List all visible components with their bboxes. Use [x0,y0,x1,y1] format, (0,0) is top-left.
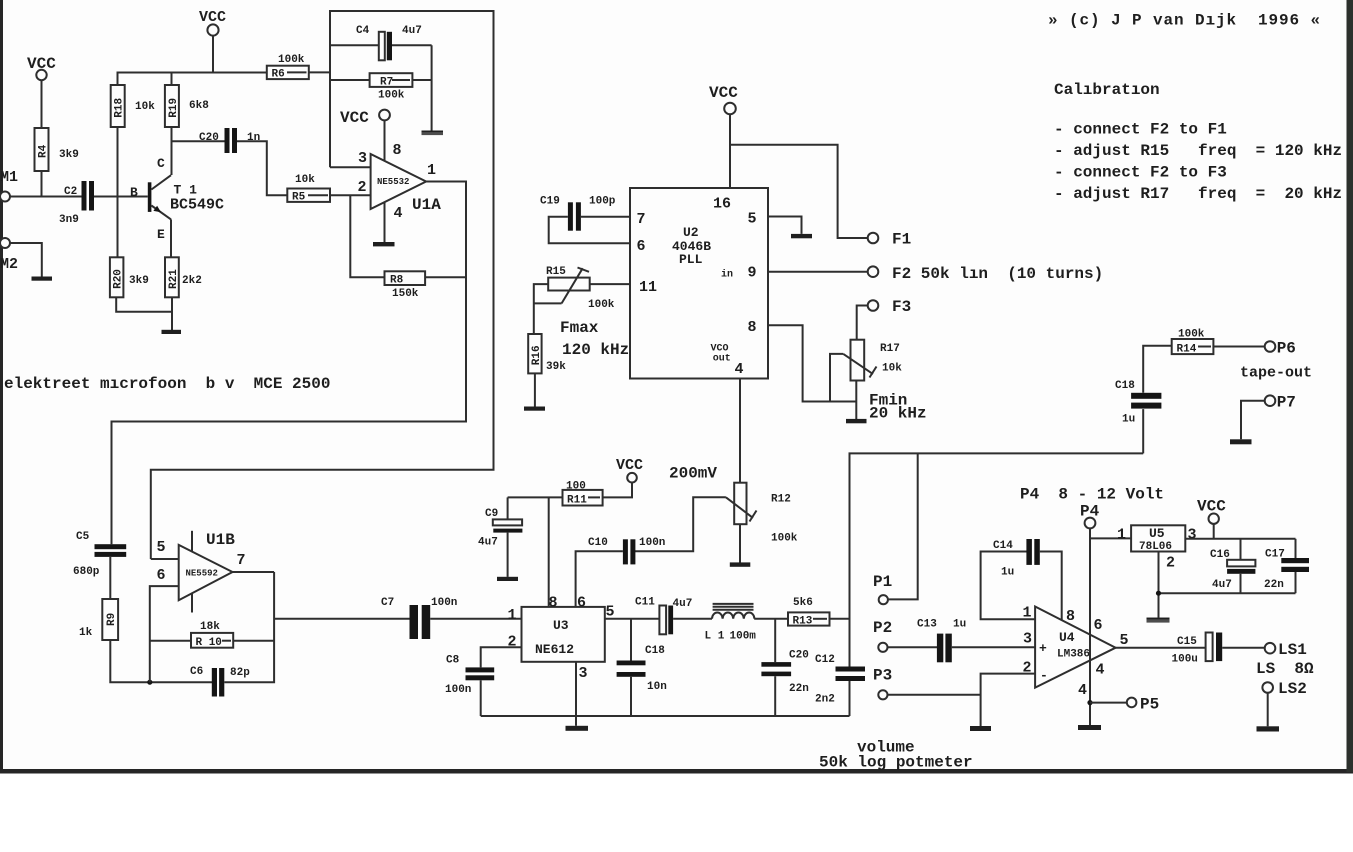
wire U4 pin2 to ground [981,674,1036,726]
capacitor C18b 1u [1115,346,1172,454]
node VCC (output) [1197,498,1226,524]
svg-text:tape-out: tape-out [1240,365,1312,382]
wire VCC stem to rail [212,36,214,73]
ground below C4 R7 [422,131,444,136]
node VCC (U3) [616,457,643,483]
svg-text:R18: R18 [114,97,126,117]
svg-text:C11: C11 [635,596,655,608]
node LS2 [1262,680,1306,698]
capacitor C16 4u7 [1210,539,1255,593]
capacitor C4 4u7 [330,25,432,60]
wire VCC to R4 [41,80,43,128]
svg-text:4u7: 4u7 [673,598,693,610]
svg-text:3: 3 [1188,527,1197,544]
svg-text:NE5592: NE5592 [186,569,218,579]
inductor L1 100m [705,604,757,643]
ground below R21 [162,330,182,334]
svg-text:10n: 10n [647,681,667,693]
svg-text:8: 8 [549,595,558,612]
svg-text:C14: C14 [993,540,1013,552]
wire U3 pin2 to C8 [481,647,522,667]
resistor R9 1k [79,599,118,640]
svg-text:5k6: 5k6 [793,597,813,609]
svg-text:elektreet mıcrofoon b v MCE: elektreet mıcrofoon b v MCE 2500 [4,375,330,393]
wire collector to C20 [172,140,225,142]
wire output to C7 [274,618,409,620]
svg-text:P7: P7 [1277,394,1296,412]
svg-text:C18: C18 [1115,380,1135,392]
wire R17 to ground [855,381,857,420]
svg-text:R21: R21 [168,269,180,289]
svg-text:39k: 39k [546,361,566,373]
svg-text:LS1: LS1 [1278,641,1307,659]
wire C19 loop to pin6 [549,217,630,244]
svg-text:6k8: 6k8 [189,100,209,112]
wire C19 to pin7 [581,216,630,218]
svg-text:R8: R8 [390,274,404,286]
svg-text:8: 8 [393,142,402,159]
svg-text:U5: U5 [1149,526,1165,541]
svg-text:120 kHz: 120 kHz [562,341,629,359]
svg-text:U1B: U1B [206,531,235,549]
wire U1A pin3 [330,166,371,168]
svg-text:20 kHz: 20 kHz [869,405,927,423]
svg-text:P6: P6 [1277,340,1296,358]
svg-text:1: 1 [1023,605,1032,622]
border frame left [0,0,3,772]
svg-text:100m: 100m [730,631,757,643]
node P3 [873,667,892,700]
resistor R14 100k [1172,329,1214,356]
svg-text:R15: R15 [546,266,566,278]
svg-text:R16: R16 [531,345,543,365]
svg-text:82p: 82p [230,667,250,679]
op-amp U1B NE5532 [157,531,246,613]
resistor R21 2k2 [165,257,202,297]
capacitor C6 82p [190,666,250,697]
svg-text:7: 7 [237,552,246,569]
svg-text:5: 5 [748,210,757,227]
svg-text:» (c) J P van Dıjk 1996 «: » (c) J P van Dıjk 1996 « [1048,12,1321,30]
wire U1A pin4 to ground [384,202,386,242]
svg-text:E: E [157,227,165,242]
svg-text:R4: R4 [38,144,50,158]
svg-text:22n: 22n [789,683,809,695]
svg-text:LS2: LS2 [1278,680,1307,698]
node F3 [868,298,912,316]
svg-text:4: 4 [1078,682,1087,699]
svg-text:680p: 680p [73,566,100,578]
resistor R20 3k9 [110,257,149,297]
svg-text:200mV: 200mV [669,465,717,483]
svg-text:1u: 1u [1001,567,1014,579]
capacitor C2 3n9 [59,181,94,226]
wire output riser [850,453,1144,666]
wire R4 to input node [41,171,43,197]
svg-text:LM386: LM386 [1057,649,1090,661]
wire R14 to P6 [1213,346,1264,348]
svg-text:3: 3 [1023,631,1032,648]
wire C5 to R9 [109,557,111,599]
node P4 [1080,503,1100,529]
wire R12 to ground [739,524,741,562]
svg-text:VCC: VCC [616,457,643,474]
svg-text:R20: R20 [113,269,125,289]
wire U5 pin3 rail [1185,538,1295,540]
wire P7 to ground [1241,401,1265,440]
resistor R4 [35,128,79,171]
capacitor C17 22n [1264,539,1309,593]
wire C6 to output branch [224,572,274,682]
resistor R16 39k [528,334,566,373]
border frame bottom [0,769,1353,774]
node VCC (U2) [709,84,738,114]
svg-text:BC549C: BC549C [170,197,224,214]
svg-text:VCC: VCC [340,109,369,127]
resistor R13 5k6 [788,597,830,627]
svg-text:M2: M2 [0,256,18,273]
svg-text:1: 1 [508,607,517,624]
resistor R19 6k8 [165,73,209,128]
wire C16 C17 bottom rail [1159,592,1296,594]
svg-text:R19: R19 [168,98,180,118]
svg-text:P3: P3 [873,667,892,685]
svg-text:C5: C5 [76,531,90,543]
svg-text:8: 8 [748,319,757,336]
svg-text:100n: 100n [445,684,471,696]
svg-text:C2: C2 [64,186,77,198]
wire U3 pin3 to ground [575,662,577,726]
svg-text:100k: 100k [588,299,615,311]
wire C20 to R5 [237,141,287,195]
ground below U1A [373,242,395,246]
wire U2 pin4 VCO out to R12 [739,379,741,483]
svg-text:2: 2 [358,179,367,196]
capacitor C20 1n [199,128,260,153]
wire P4 to U5 pin1 [1090,537,1131,539]
resistor R18 10k [111,85,156,127]
svg-text:C9: C9 [485,508,498,520]
node P6 [1265,340,1296,358]
svg-text:- adjust R15 freq = 120 kHz: - adjust R15 freq = 120 kHz [1054,142,1342,160]
resistor R8 150k [385,271,426,300]
svg-text:C6: C6 [190,666,203,678]
svg-text:Fmax: Fmax [560,319,599,337]
svg-text:- adjust R17 freq = 20 kHz: - adjust R17 freq = 20 kHz [1054,185,1342,203]
potentiometer R15 100k [546,266,615,311]
wire C2 to T1 base [94,196,148,198]
node M1 [0,169,18,202]
svg-text:U4: U4 [1059,630,1075,645]
wire R15 to pin11 [590,283,630,285]
svg-text:50k log potmeter: 50k log potmeter [819,754,973,772]
junction dot [147,680,152,685]
wire U1A output down [112,182,467,545]
wire pin2 node down to R8 [350,195,384,277]
wire U4 output to C15 [1116,647,1206,649]
svg-text:F1: F1 [892,231,911,249]
svg-text:P4 8 - 12 Volt: P4 8 - 12 Volt [1020,486,1164,504]
svg-text:C13: C13 [917,619,937,631]
svg-text:R14: R14 [1177,343,1197,355]
wire R15 left and wiper to R16 [534,284,548,334]
wire R5 to U1A pin2 [330,194,371,196]
svg-text:2: 2 [1023,660,1032,677]
svg-text:+: + [1039,641,1047,656]
IC U5 78L06 [1117,525,1197,571]
IC U2 4046B PLL [630,188,768,379]
svg-text:1u: 1u [1122,414,1135,426]
wire C11 to L1 [673,618,712,620]
svg-text:78L06: 78L06 [1139,541,1172,553]
svg-text:PLL: PLL [679,252,703,267]
wire P3 to pin2 node [888,694,981,696]
svg-text:C18: C18 [645,645,665,657]
svg-text:out: out [713,353,731,364]
wire C14 to U4 pin8 [1040,552,1062,621]
svg-text:1k: 1k [79,627,93,639]
wire C14 loop [981,552,1036,620]
ground below pin2 [970,726,991,731]
potentiometer R12 100k [726,483,798,545]
wire R20 R21 to ground [116,297,172,312]
wire R13 to output node [830,618,850,620]
node VCC (main rail) [199,9,226,36]
svg-text:F3: F3 [892,298,911,316]
svg-text:6: 6 [577,595,586,612]
svg-text:R11: R11 [567,495,587,507]
svg-text:100k: 100k [771,533,798,545]
svg-text:R6: R6 [272,69,285,81]
node M2 [0,238,18,273]
ground below R12 [730,562,751,566]
wire VCC stem [1213,524,1215,539]
capacitor C20 22n [761,619,808,716]
node P2 [873,619,892,652]
wire U3 pin8 up [548,497,550,607]
wire P2 to C13 [888,646,938,648]
wire U2 pin8 to R17 bottom [768,325,856,401]
ground below LS2 [1257,726,1280,731]
svg-text:R12: R12 [771,494,791,506]
wire R6 to feedback node [309,71,330,73]
svg-text:6: 6 [637,238,646,255]
svg-text:2: 2 [1166,555,1175,572]
svg-text:18k: 18k [200,621,220,633]
svg-text:U3: U3 [553,618,569,633]
wire C12 bottom [849,681,851,716]
wire C8 to bottom rail [480,680,482,716]
wire C4 R7 to ground [431,45,433,130]
svg-text:NE612: NE612 [535,642,574,657]
node P7 [1265,394,1296,412]
svg-text:3: 3 [358,150,367,167]
ground below M2 [32,277,53,281]
svg-text:10k: 10k [882,363,902,375]
svg-text:- connect F2 to F3: - connect F2 to F3 [1054,164,1227,182]
svg-text:NE5532: NE5532 [377,177,409,187]
svg-text:C12: C12 [815,654,835,666]
wire down to P1 [888,453,918,599]
wire R9 to bottom node [110,640,212,682]
svg-text:LS 8Ω: LS 8Ω [1256,660,1314,678]
svg-text:F2 50k lın (10 turns): F2 50k lın (10 turns) [892,265,1103,283]
junction dot U5 ground rail [1156,591,1161,596]
wire VCC to U2 pin16 [729,114,731,188]
svg-text:- connect F2 to F1: - connect F2 to F1 [1054,121,1227,139]
node LS1 [1265,641,1307,659]
ground below U5 [1147,618,1170,623]
wire U3 pin5 out [605,618,660,620]
wire M1 to C2 [10,196,82,198]
node VCC (R4 supply) [27,55,56,80]
svg-text:1: 1 [1117,527,1126,544]
capacitor C7 100n [381,597,457,639]
node F1 [868,231,912,249]
svg-text:10k: 10k [135,101,155,113]
svg-text:-: - [1040,668,1048,683]
svg-text:9: 9 [748,265,757,282]
svg-text:8: 8 [1066,608,1075,625]
wire U2 pin5 to ground [768,217,802,234]
node P1 [873,573,892,604]
svg-text:L 1: L 1 [705,631,725,643]
junction dot P5 [1087,700,1092,705]
wire R18 to base node [117,127,119,257]
svg-text:6: 6 [157,567,166,584]
svg-text:1: 1 [427,162,436,179]
svg-text:3k9: 3k9 [129,275,149,287]
wire VCC branch to F1 [730,145,868,238]
svg-text:in: in [721,269,733,281]
svg-text:R17: R17 [880,343,900,355]
svg-text:C15: C15 [1177,636,1197,648]
op-amp U1A NE5532 [358,142,442,222]
svg-text:R9: R9 [106,613,118,626]
svg-text:4: 4 [1096,661,1105,678]
wire C15 to LS1 [1222,647,1264,649]
wire C9 to R11 [508,496,563,498]
svg-text:1u: 1u [953,619,966,631]
svg-text:C7: C7 [381,597,394,609]
svg-text:2n2: 2n2 [815,694,835,706]
node P5 [1127,696,1159,714]
svg-text:T 1: T 1 [174,183,198,198]
svg-text:M1: M1 [0,169,18,186]
svg-text:11: 11 [639,279,657,296]
svg-text:Calıbratıon: Calıbratıon [1054,81,1160,99]
svg-text:P1: P1 [873,573,892,591]
wire U2 pin9 to F2 [768,271,868,273]
wire M2 to ground [10,243,42,277]
wire R19 to collector [171,127,173,175]
svg-text:4u7: 4u7 [1212,579,1232,591]
svg-text:4: 4 [394,205,403,222]
svg-text:U1A: U1A [412,196,441,214]
ground below R16 [524,407,545,411]
svg-text:22n: 22n [1264,579,1284,591]
svg-text:C4: C4 [356,25,370,37]
capacitor C19 100p [540,196,616,231]
wire C13 to U4 pin3 [952,646,1035,648]
svg-text:3: 3 [579,665,588,682]
svg-text:P2: P2 [873,619,892,637]
capacitor C14 1u [993,539,1040,579]
svg-text:R5: R5 [292,192,306,204]
svg-text:R7: R7 [380,76,393,88]
svg-text:C20: C20 [789,650,809,662]
svg-text:R 10: R 10 [196,637,222,649]
resistor R5 10k [287,174,330,204]
transistor T1 BC549C [130,156,224,257]
svg-text:VCC: VCC [1197,498,1226,516]
ground below U3 [566,726,589,731]
IC U3 NE612 [508,595,615,683]
capacitor C13 1u [917,619,966,663]
ground below P7 [1230,439,1252,444]
wire P5 branch [1090,702,1127,704]
ground below U4 [1078,725,1101,730]
capacitor C11 4u7 [635,596,692,634]
wire bottom rail [481,715,850,717]
wire R16 to ground [534,373,536,406]
ground at U2 pin5 [791,234,812,238]
wire feedback box left [151,11,494,559]
svg-text:3n9: 3n9 [59,214,79,226]
wire R12 wiper to C10 [635,497,726,551]
svg-text:P5: P5 [1140,696,1159,714]
svg-text:4: 4 [735,361,744,378]
capacitor C18 10n [617,619,667,716]
wire C9 stem and ground [507,497,509,519]
op-amp U4 LM386 [1023,605,1129,700]
capacitor C5 680p [73,531,126,578]
wire U1B pin5 [151,558,179,560]
wire C10 to U3 pin6 [576,551,623,607]
svg-text:5: 5 [157,539,166,556]
svg-text:16: 16 [713,196,731,213]
wire C7 to U3 pin1 [430,618,521,620]
border frame right band [1347,0,1353,772]
svg-text:4u7: 4u7 [478,537,498,549]
svg-text:7: 7 [637,211,646,228]
svg-text:U2: U2 [683,225,699,240]
svg-text:5: 5 [1120,632,1129,649]
svg-text:C10: C10 [588,537,608,549]
capacitor C10 100n [588,537,665,564]
svg-text:C19: C19 [540,196,560,208]
resistor R11 100 [563,481,603,507]
wire R11 to VCC [603,482,632,497]
node F2 [868,265,1104,283]
svg-text:100p: 100p [589,196,616,208]
capacitor C15 100u [1172,633,1223,666]
capacitor C9 4u7 [478,508,522,549]
ground below C9 [497,577,518,581]
wire LS2 to ground [1267,693,1269,727]
svg-text:100k: 100k [378,90,405,102]
resistor R10 18k [150,621,274,649]
capacitor C8 100n [445,655,494,697]
svg-text:2k2: 2k2 [182,275,202,287]
wire L1 to R13 [754,618,788,620]
capacitor C12 2n2 [815,654,865,706]
resistor R6 100k [267,54,309,81]
svg-text:100n: 100n [431,597,457,609]
wire P4 supply vertical [1089,528,1091,725]
wire VCC rail [118,73,267,86]
resistor R7 100k [330,73,432,101]
